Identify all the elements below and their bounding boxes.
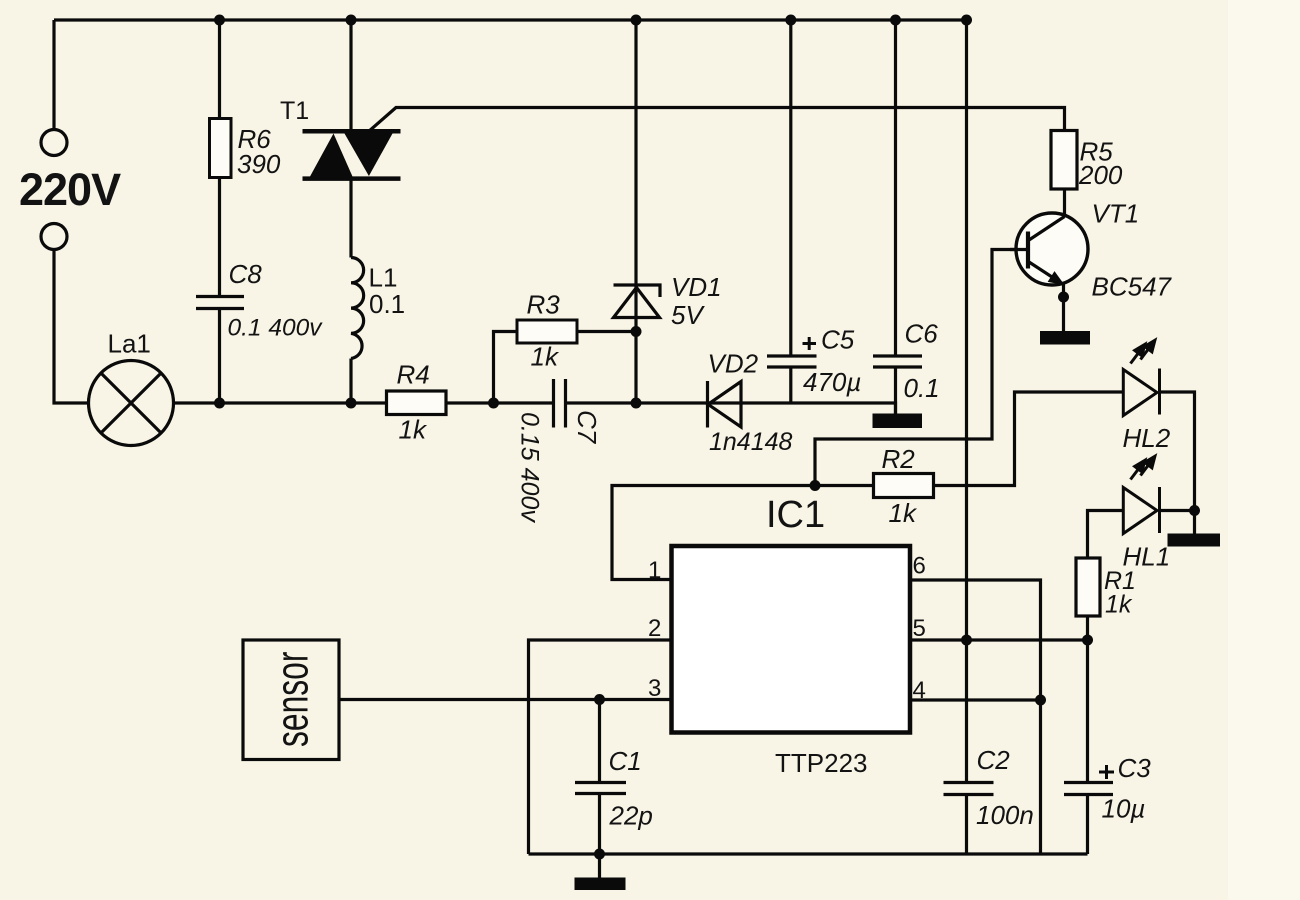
node R2 left <box>810 480 821 491</box>
node pin3 C1 <box>594 694 605 705</box>
triac T1 <box>303 131 401 178</box>
capacitor C1 <box>575 783 626 794</box>
wire pin5 <box>910 638 1088 641</box>
ground C1 <box>575 878 626 891</box>
svg-text:5V: 5V <box>671 300 705 330</box>
label plus C5 <box>803 337 817 350</box>
node rail L1 <box>346 398 357 409</box>
capacitor C8 <box>196 297 244 309</box>
wire R3 left <box>494 332 518 404</box>
wire pin6 <box>910 580 1041 854</box>
wire R2 to HL2 anode <box>934 392 1124 486</box>
wire VT1 collector stub <box>1063 188 1066 218</box>
svg-text:390: 390 <box>237 149 281 179</box>
wire R2 node to VT1 base <box>815 250 1028 486</box>
node top rail T1 <box>346 15 357 26</box>
lamp La1 <box>89 361 174 446</box>
wire R3 right <box>577 330 636 333</box>
resistor R4 <box>387 391 447 415</box>
zener VD1 <box>614 285 661 318</box>
wire pin1 to R2 <box>612 486 874 580</box>
wire C1 branch <box>598 700 601 878</box>
wire rail R4 to C7 <box>445 401 552 404</box>
svg-text:IC1: IC1 <box>766 494 825 536</box>
svg-text:1k: 1k <box>1105 591 1133 619</box>
wire pin2 <box>529 640 672 854</box>
svg-text:R3: R3 <box>527 290 561 320</box>
svg-text:C3: C3 <box>1118 753 1152 783</box>
inductor L1 <box>351 258 364 359</box>
node pin5 C2 <box>961 635 972 646</box>
svg-text:2: 2 <box>648 615 661 642</box>
diode VD2 <box>708 381 742 428</box>
svg-text:0.1 400v: 0.1 400v <box>228 315 324 342</box>
capacitor C7 <box>554 379 566 428</box>
node top rail corner <box>961 15 972 26</box>
arrows HL1 <box>1131 456 1155 479</box>
wire R1 to HL1 anode <box>1088 511 1124 559</box>
ground HL <box>1168 534 1221 547</box>
transistor VT1 <box>1010 213 1088 285</box>
wire R1 bottom <box>1086 616 1089 640</box>
IC U1 TTP223 box <box>672 546 911 733</box>
resistor R5 <box>1051 131 1077 190</box>
wire top rail to pin5 <box>965 20 968 640</box>
svg-text:0.15 400v: 0.15 400v <box>516 412 544 523</box>
svg-text:0.1: 0.1 <box>369 289 405 319</box>
node rail VD1 <box>631 398 642 409</box>
svg-text:3: 3 <box>648 675 661 702</box>
svg-text:1n4148: 1n4148 <box>709 428 793 456</box>
wire bottom rail <box>529 852 1088 855</box>
svg-text:C6: C6 <box>905 319 939 349</box>
svg-text:470µ: 470µ <box>803 367 861 397</box>
ground VT1 <box>1040 331 1090 345</box>
svg-text:1k: 1k <box>531 342 560 372</box>
svg-text:L1: L1 <box>369 263 398 293</box>
wire R6 branch <box>218 20 221 403</box>
svg-text:6: 6 <box>913 553 926 580</box>
wire terminal top drop <box>52 20 55 130</box>
node rail C8 <box>214 398 225 409</box>
svg-text:C1: C1 <box>609 746 642 776</box>
wire C2 branch <box>965 640 968 854</box>
resistor R2 <box>874 474 934 498</box>
node top rail R6 <box>214 15 225 26</box>
svg-text:C8: C8 <box>229 259 263 289</box>
wire T1 branch <box>349 20 352 403</box>
svg-text:1k: 1k <box>889 498 918 528</box>
node bottom rail C1 <box>594 849 605 860</box>
wire VD1 branch <box>634 20 637 403</box>
svg-text:C5: C5 <box>821 325 855 355</box>
svg-text:T1: T1 <box>280 97 309 125</box>
arrows HL2 <box>1131 340 1155 363</box>
wire HL1 cathode <box>1160 509 1195 512</box>
light strip right margin <box>1228 0 1300 900</box>
svg-text:0.1: 0.1 <box>904 373 940 403</box>
ground C6 <box>873 414 923 429</box>
svg-text:C7: C7 <box>572 410 602 445</box>
wire top rail <box>54 18 967 21</box>
node rail R3 <box>488 398 499 409</box>
resistor R3 <box>517 320 577 343</box>
svg-text:HL2: HL2 <box>1123 423 1171 453</box>
wire C3 branch <box>1086 640 1089 854</box>
wire C6 branch <box>894 20 897 414</box>
wire C5 branch <box>789 20 792 403</box>
svg-text:VD1: VD1 <box>671 272 722 302</box>
node top rail C5 <box>785 15 796 26</box>
wire VT1 emitter to ground <box>1062 285 1065 332</box>
svg-text:200: 200 <box>1078 160 1123 190</box>
svg-text:VD2: VD2 <box>708 349 759 379</box>
svg-text:R2: R2 <box>882 444 916 474</box>
svg-text:1k: 1k <box>399 415 428 445</box>
wire rail C7 to C6 ground <box>567 403 896 414</box>
svg-text:VT1: VT1 <box>1092 199 1140 229</box>
resistor R1 <box>1076 558 1100 616</box>
resistor R6 <box>210 119 232 178</box>
svg-text:sensor: sensor <box>268 652 318 747</box>
svg-text:4: 4 <box>913 677 926 704</box>
svg-text:BC547: BC547 <box>1092 272 1173 302</box>
label plus C3 <box>1099 765 1114 779</box>
capacitor C3 <box>1064 783 1113 795</box>
wire T1 gate to R5 <box>368 108 1065 133</box>
sensor box <box>243 640 339 760</box>
terminal lower 220V <box>41 224 67 250</box>
svg-text:220V: 220V <box>19 164 121 215</box>
svg-text:R4: R4 <box>397 360 430 390</box>
node VD1 R3 <box>631 326 642 337</box>
wire rail lamp to R4 <box>174 401 387 404</box>
svg-text:5: 5 <box>913 615 926 642</box>
led HL1 <box>1123 487 1159 534</box>
node VT1 emitter <box>1058 292 1069 303</box>
node top rail C6 <box>890 15 901 26</box>
svg-text:TTP223: TTP223 <box>775 748 868 778</box>
terminal upper 220V <box>41 130 67 156</box>
capacitor C2 <box>944 783 994 795</box>
node top rail VD1 <box>631 15 642 26</box>
svg-text:C2: C2 <box>977 745 1011 775</box>
wire pin4 <box>910 698 1041 701</box>
capacitor C6 <box>873 356 922 367</box>
wire sensor to pin3 <box>339 698 672 701</box>
node pin5 R1 C3 <box>1082 635 1093 646</box>
svg-text:22p: 22p <box>609 801 653 831</box>
svg-text:100n: 100n <box>976 800 1034 830</box>
led HL2 <box>1123 369 1159 416</box>
node HL1 cathode <box>1189 505 1200 516</box>
capacitor C5 <box>767 356 817 367</box>
svg-text:La1: La1 <box>108 329 151 359</box>
node pin4 <box>1035 695 1046 706</box>
wire terminal bottom drop to lamp <box>54 250 89 404</box>
svg-text:1: 1 <box>648 557 661 584</box>
svg-text:10µ: 10µ <box>1102 794 1146 824</box>
wire HL2 cathode to ground <box>1160 392 1195 534</box>
